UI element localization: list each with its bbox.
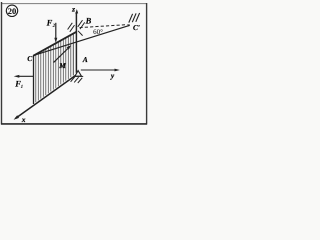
frame border left <box>1 2 3 125</box>
svg-text:1: 1 <box>21 84 24 90</box>
support ground hatches <box>71 77 83 83</box>
svg-text:20: 20 <box>8 6 17 16</box>
y-axis arrowhead <box>115 69 120 72</box>
svg-text:z: z <box>71 5 75 14</box>
frame border bottom <box>1 123 147 125</box>
svg-text:60°: 60° <box>93 28 103 36</box>
plate left edge <box>33 55 35 104</box>
bearing hatches at B <box>68 20 85 35</box>
svg-text:A: A <box>82 55 88 64</box>
plate top edge C to B <box>33 32 76 56</box>
C' wall anchor hatches <box>129 13 140 23</box>
svg-text:y: y <box>110 71 115 80</box>
rod / string C to C' (drawn over plate) <box>33 26 129 56</box>
dashed line B to C' <box>80 25 128 28</box>
plate hatching <box>36 35 71 102</box>
svg-text:x: x <box>21 115 26 124</box>
x-axis (plate bottom edge lies along it) <box>16 75 76 118</box>
svg-text:C′: C′ <box>133 23 140 32</box>
frame border right <box>146 3 148 125</box>
force F2 arrow (points down onto top edge) <box>55 23 57 40</box>
C' anchor point blob <box>128 24 130 26</box>
force arrow at M (45 deg up-right) <box>54 48 69 63</box>
problem number badge circle 20 <box>6 5 17 16</box>
svg-text:B: B <box>85 16 92 26</box>
svg-text:2: 2 <box>52 23 56 29</box>
z-axis arrowhead <box>75 9 78 14</box>
svg-text:F: F <box>46 17 53 27</box>
background <box>0 0 150 127</box>
darker last hatch line near right edge <box>72 34 74 76</box>
force F1 arrow (points left) <box>17 75 34 77</box>
x-axis arrowhead <box>14 115 20 120</box>
pin support at A (triangle) <box>75 71 82 77</box>
frame border top <box>1 3 147 5</box>
svg-text:M: M <box>58 61 66 70</box>
support base line <box>73 75 83 77</box>
y-axis <box>81 69 118 71</box>
z-axis (also plate right edge) <box>75 12 77 73</box>
